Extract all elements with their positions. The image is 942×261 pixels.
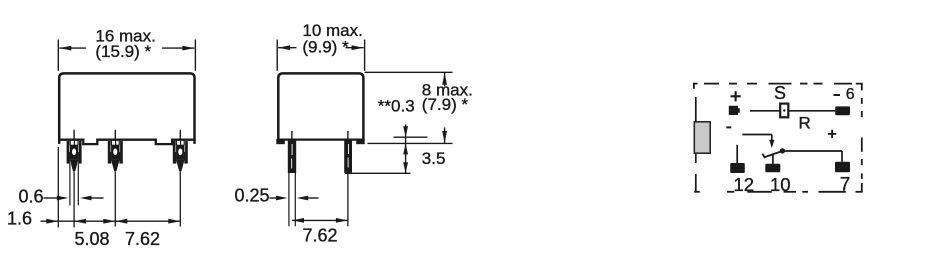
actuation arrow (769, 140, 774, 149)
pin thickness extension lines (288, 173, 290, 227)
label + (set coil) (731, 95, 741, 97)
pin 2 hole (113, 149, 117, 156)
coil + terminal pad (729, 106, 740, 115)
S coil element (780, 104, 788, 118)
side pin 2 (section) (344, 140, 352, 173)
case bottom edge (side view) (277, 138, 365, 140)
dim chain extension lines (57, 147, 59, 228)
svg-text:5.08: 5.08 (74, 229, 109, 249)
side pin 1 (section) (288, 140, 296, 173)
pin 1 hole (72, 149, 76, 156)
wire + to S coil (750, 110, 780, 112)
switch common node (780, 148, 785, 153)
dim 10 max extension lines (276, 40, 278, 71)
relay case (front view) outline (59, 73, 194, 143)
label - (reset coil) (726, 126, 731, 128)
schematic dashed border bottom (694, 191, 700, 193)
label + (reset side) (828, 133, 836, 135)
reference line pin shoulder (345, 172, 411, 174)
schematic border left segments (695, 97, 697, 163)
pin 1 centre tick (73, 130, 75, 141)
reference line seating plane (368, 142, 453, 144)
reset coil wire (742, 134, 772, 136)
wire S coil to terminal 6 (788, 110, 835, 112)
pin 1 edge extension lines (69, 164, 71, 206)
relay case bottom stepped edge (58, 140, 196, 144)
svg-text:6: 6 (846, 86, 855, 103)
svg-text:7: 7 (840, 175, 851, 196)
svg-text:(7.9) *: (7.9) * (422, 95, 469, 114)
schematic border top-right corner (856, 84, 862, 91)
pin 1 blade (67, 141, 70, 164)
svg-text:(15.9) *: (15.9) * (95, 42, 151, 61)
terminal 10 pad (765, 164, 780, 173)
case left foot (276, 139, 285, 144)
dim chain arrowheads (46, 219, 58, 224)
dim chain line (41, 220, 181, 222)
svg-text:0.6: 0.6 (18, 187, 43, 207)
svg-text:10: 10 (770, 174, 791, 195)
pin 3 centre tick (179, 130, 181, 141)
svg-text:7.62: 7.62 (302, 225, 337, 245)
terminal 7 pad (835, 162, 850, 173)
pin 2 blade (108, 141, 111, 164)
svg-text:3.5: 3.5 (422, 149, 446, 168)
dim 10 max dimension line + arrows (278, 47, 296, 49)
pin 3 hole (178, 149, 182, 156)
dim 8 max arrows (444, 73, 446, 87)
dim 7.62 line + arrows (292, 219, 348, 221)
case right foot (356, 139, 365, 144)
schematic dashed border right (861, 98, 863, 104)
dim 16 max extension lines (57, 40, 59, 71)
terminal 6 pad (835, 106, 850, 115)
dim 16 max dimension line + arrows (59, 47, 86, 49)
svg-text:7.62: 7.62 (125, 229, 160, 249)
svg-text:S: S (774, 83, 786, 103)
svg-text:1.6: 1.6 (7, 209, 32, 229)
switch armature (764, 151, 783, 157)
side pin 1 centre tick (291, 131, 293, 141)
case-top extension line (365, 71, 453, 73)
terminal 12 stub wire (736, 145, 738, 164)
wire node to terminal 7 (785, 150, 843, 152)
coil orientation mark (grey) (694, 122, 710, 153)
svg-text:0.25: 0.25 (235, 186, 270, 206)
schematic dashed border top (693, 83, 698, 85)
pin 2 centre tick (114, 130, 116, 141)
svg-text:(9.9) *: (9.9) * (302, 38, 349, 57)
pin 3 blade (173, 141, 176, 164)
relay case (side view) outline (278, 73, 363, 140)
dim 0.3 / 3.5 vertical line + arrows (405, 125, 407, 174)
svg-text:R: R (799, 114, 811, 133)
dim 0.6 lines + arrows (44, 197, 59, 199)
dim 7.62 extension line (347, 173, 349, 226)
schematic border top-left corner (693, 84, 695, 89)
terminal 12 pad (730, 163, 745, 173)
dim 0.25 lines + arrows (270, 197, 277, 199)
side pin 2 centre tick (347, 131, 349, 141)
label - 6 (834, 94, 841, 96)
svg-text:12: 12 (734, 174, 755, 195)
reference line case bottom (394, 136, 428, 138)
terminal 10 stub wire (772, 154, 774, 164)
svg-text:**0.3: **0.3 (378, 96, 415, 115)
